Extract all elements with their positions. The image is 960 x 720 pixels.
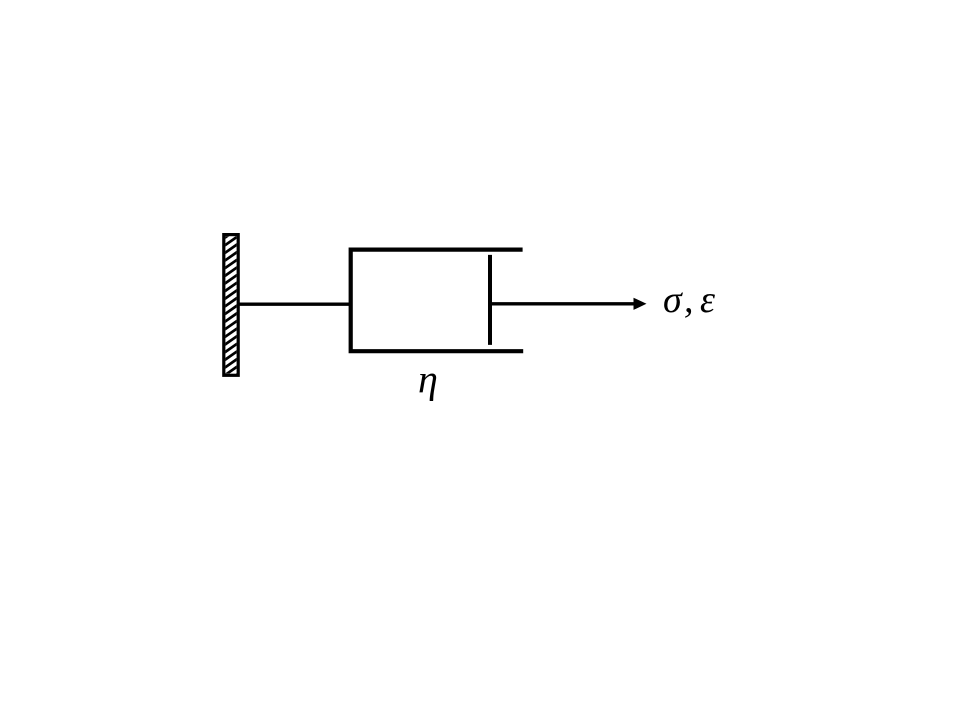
dashpot cylinder (open right) <box>351 250 524 352</box>
wire: piston rod with load arrow <box>490 302 635 305</box>
svg-text:σ,ε: σ,ε <box>663 279 715 321</box>
wire: rod from wall to dashpot cylinder <box>239 303 352 306</box>
fixed wall (hatched anchor) <box>224 221 239 384</box>
dashpot piston plate <box>488 255 492 345</box>
svg-text:η: η <box>418 356 438 401</box>
